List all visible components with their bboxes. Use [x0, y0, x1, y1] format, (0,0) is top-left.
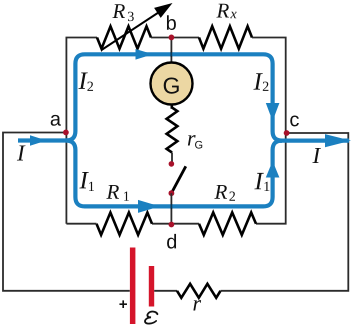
label R2 — [214, 185, 227, 199]
label I2 left — [78, 73, 87, 89]
resistor R2 zigzag — [199, 213, 256, 235]
wire: R3 to node b to Rx — [151, 37, 199, 39]
arrowhead: right side I1 upward — [266, 161, 280, 178]
arrowhead: right side I2 downward — [266, 103, 280, 121]
switch upper contact dot — [169, 161, 175, 167]
wire: blue exit current I to right — [280, 139, 349, 143]
wire: blue bottom loop I1, node a to node c via R1/R2 row — [66, 141, 282, 207]
wire: blue entry current I from left — [18, 138, 67, 142]
arrowhead: bottom I1 rightward — [138, 200, 160, 213]
wire: node a to outer left edge, down left side, bottom to battery + terminal — [3, 133, 130, 291]
label node c — [290, 115, 299, 126]
label node a — [51, 115, 61, 126]
resistor Rx zigzag — [199, 26, 252, 48]
wire: Rx to top-right corner, down bridge right edge — [252, 38, 286, 224]
wire: bridge left edge (node a vertical) — [66, 38, 97, 224]
switch pivot dot — [169, 190, 175, 196]
label + battery polarity — [119, 300, 127, 308]
label Rx — [216, 4, 229, 18]
wire: node b down to galvanometer — [170, 38, 172, 64]
galvanometer G — [151, 63, 193, 105]
arrowhead: exit current I — [325, 134, 351, 147]
label I entry — [17, 145, 26, 160]
label R3 — [112, 4, 125, 18]
label I exit — [312, 148, 321, 163]
wire: battery - terminal to resistor r — [154, 290, 177, 292]
resistor rG zigzag below galvanometer — [167, 104, 178, 152]
label r internal resistance — [193, 300, 201, 310]
wire: R2 to node d to R1 — [152, 223, 199, 225]
label script-E EMF — [145, 312, 158, 324]
wire: resistor r to bottom right corner, up right side to node c — [221, 133, 349, 291]
switch blade (open) — [171, 166, 185, 193]
label I1 right — [254, 173, 263, 189]
label rG — [188, 135, 196, 145]
arrowhead: top I2 rightward — [136, 49, 154, 60]
wire: blue top loop I2, node a to node c via R3/Rx row — [66, 54, 282, 140]
battery short plate (-) — [149, 266, 154, 307]
wire: R1 to bottom-left corner of bridge — [66, 223, 96, 225]
node b — [169, 35, 175, 41]
wire: galvanometer branch showing through blue top wire — [170, 52, 172, 57]
R3 wiper arrowhead — [154, 3, 172, 18]
wire: rG to switch upper contact — [171, 153, 173, 163]
resistor R3 zigzag (variable) — [97, 26, 151, 48]
label I1 left — [79, 172, 88, 188]
node c — [284, 130, 290, 136]
label R1 — [106, 185, 119, 199]
wire: switch pivot down to node d — [170, 193, 172, 224]
node a — [63, 130, 69, 136]
resistor r (internal resistance) zigzag — [177, 284, 221, 298]
label node b — [167, 15, 176, 30]
arrowhead: entry current I — [30, 135, 47, 146]
label node d — [167, 234, 176, 249]
node d — [169, 222, 175, 228]
R3 wiper arrow shaft — [102, 10, 164, 51]
resistor R1 zigzag — [97, 213, 153, 235]
battery EMF script-E symbol: long plate (+) — [130, 248, 136, 325]
label I2 right — [253, 73, 262, 89]
wire: switch branch showing through blue bottom wire — [170, 204, 172, 209]
